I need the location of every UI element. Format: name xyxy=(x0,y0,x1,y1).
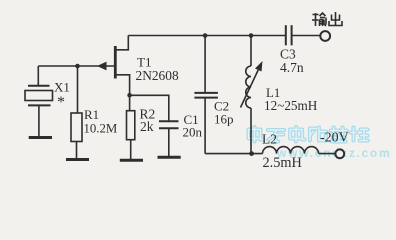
svg-text:4.7n: 4.7n xyxy=(280,60,304,75)
svg-text:20n: 20n xyxy=(183,124,203,139)
crystal X1 xyxy=(25,66,53,136)
capacitor C3 xyxy=(286,25,320,45)
node top rail L1 xyxy=(249,33,254,38)
resistor R1 xyxy=(71,66,82,158)
svg-text:X1: X1 xyxy=(54,80,70,95)
wire source lead xyxy=(116,75,130,96)
terminal -20V xyxy=(335,149,344,158)
inductor L1 variable xyxy=(241,36,259,154)
transistor T1 channel bar xyxy=(114,46,117,79)
node source junction xyxy=(127,93,132,98)
capacitor C1 xyxy=(159,121,179,156)
svg-text:R1: R1 xyxy=(84,107,99,122)
wire drain lead xyxy=(116,36,129,50)
ground X1 xyxy=(29,136,52,139)
wire gate rail xyxy=(38,65,114,67)
inductor L2 xyxy=(263,147,336,154)
svg-text:10.2M: 10.2M xyxy=(84,122,118,136)
ground R1 xyxy=(66,158,89,161)
node bottom rail L1 xyxy=(249,151,254,156)
node top rail C2 xyxy=(203,33,208,38)
svg-text:2.5mH: 2.5mH xyxy=(263,155,302,171)
wire bottom rail xyxy=(205,153,262,155)
node gate junction xyxy=(75,64,80,69)
ground R2 xyxy=(120,159,143,162)
terminal output xyxy=(320,31,330,41)
wire top rail (drain to C3) xyxy=(128,35,285,37)
L1 arrow head xyxy=(255,61,263,72)
svg-text:2k: 2k xyxy=(140,119,154,134)
svg-text:-20V: -20V xyxy=(320,131,349,146)
wire source node to C1 xyxy=(130,95,169,121)
svg-text:2N2608: 2N2608 xyxy=(136,68,179,83)
capacitor C2 xyxy=(194,36,218,154)
transistor T1 gate arrow xyxy=(97,62,107,71)
label output 输出 (drawn glyphs) xyxy=(312,12,342,26)
resistor R2 xyxy=(127,95,135,159)
svg-text:*: * xyxy=(57,94,65,111)
ground C1 xyxy=(158,156,181,159)
svg-text:16p: 16p xyxy=(214,112,234,127)
svg-text:L2: L2 xyxy=(262,131,277,146)
svg-text:12~25mH: 12~25mH xyxy=(264,98,318,113)
